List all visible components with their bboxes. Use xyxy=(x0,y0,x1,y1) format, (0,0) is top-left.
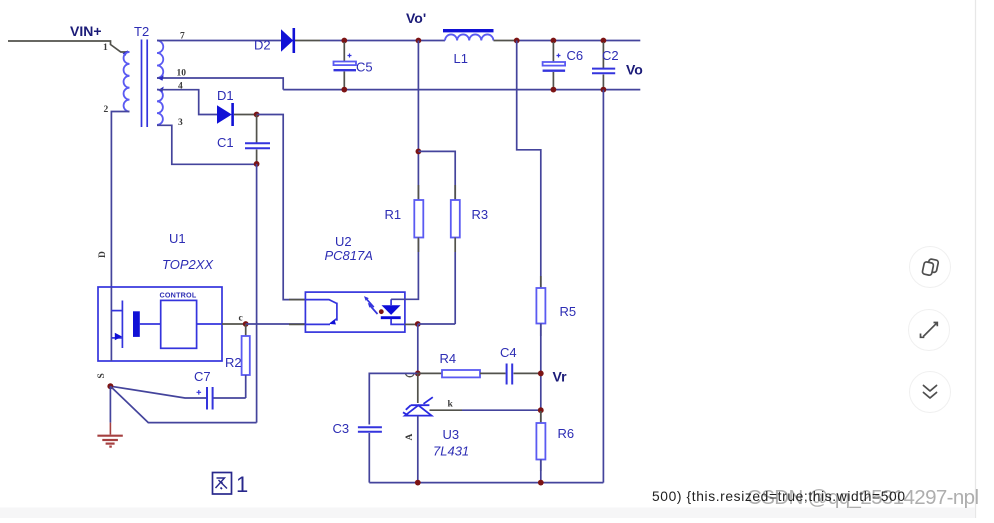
label C5 xyxy=(356,60,373,75)
pin mark under wire xyxy=(406,374,415,377)
node D1 cathode junction xyxy=(254,112,260,118)
label U2 xyxy=(335,234,352,249)
polarity arrow pin 10 xyxy=(159,75,164,81)
label PC817A xyxy=(325,248,373,263)
svg-text:1: 1 xyxy=(103,43,108,53)
node C2 top junction xyxy=(601,38,607,44)
svg-text:k: k xyxy=(448,400,454,410)
op-amp U1 body box xyxy=(98,287,222,361)
pin D label xyxy=(98,251,108,258)
svg-text:Vr: Vr xyxy=(553,369,568,385)
svg-text:R4: R4 xyxy=(440,351,457,366)
svg-text:R2: R2 xyxy=(225,355,242,370)
transistor Q inside U1 xyxy=(111,287,160,361)
wire L1 to rail end xyxy=(494,40,641,42)
svg-text:R3: R3 xyxy=(472,207,489,222)
wire C7 to source node diagonal xyxy=(110,386,206,398)
wire node c to U2 emitter xyxy=(246,323,306,325)
capacitor C7 xyxy=(197,387,213,410)
node L1 right junction xyxy=(514,38,520,44)
pin 1 xyxy=(103,43,108,53)
node c junction xyxy=(243,321,249,327)
svg-text:C5: C5 xyxy=(356,60,373,75)
wire sense divider from Vo' xyxy=(417,41,419,201)
pin S label xyxy=(97,373,107,378)
polarity arrow pin 4 xyxy=(159,87,164,93)
wire pin 3 to C1 bottom xyxy=(157,125,257,164)
wire VIN+ input to transformer pin 1 xyxy=(8,41,130,56)
resistor R2 xyxy=(242,324,250,398)
wire pin 4 to D1 anode xyxy=(157,90,217,115)
LED inside U2 xyxy=(381,299,405,324)
label VIN+ xyxy=(70,23,102,39)
capacitor C3 xyxy=(358,427,382,482)
ground xyxy=(97,436,122,447)
label R6 xyxy=(558,426,575,441)
diode D1 xyxy=(217,103,233,126)
node LED cathode junction xyxy=(415,321,421,327)
node C1 bottom junction xyxy=(254,161,260,167)
label R4 xyxy=(440,351,457,366)
wire R6 bottom xyxy=(540,460,542,483)
label C4 xyxy=(500,345,517,360)
UI divider line xyxy=(975,0,977,518)
label R2 xyxy=(225,355,242,370)
wire split to R3 xyxy=(418,151,455,200)
node LED anode dot xyxy=(379,309,384,314)
node Vo' junction xyxy=(416,38,422,44)
label C6 xyxy=(567,48,584,63)
node anode bottom junction xyxy=(415,480,421,486)
svg-text:C4: C4 xyxy=(500,345,517,360)
wire LED node down to R4 node xyxy=(417,324,419,373)
wire R1 bottom to LED anode xyxy=(391,239,418,299)
wire bias return vertical xyxy=(256,164,258,423)
label D1 xyxy=(217,88,234,103)
svg-text:1: 1 xyxy=(236,472,248,497)
wire R5 branch from L1 node xyxy=(517,41,541,289)
UI collapse button xyxy=(910,372,951,413)
UI expand button xyxy=(909,310,950,351)
svg-text:D1: D1 xyxy=(217,88,234,103)
caption resize text xyxy=(652,489,905,504)
wire C3 branch xyxy=(369,373,418,424)
wire S to ground xyxy=(109,386,111,434)
label TOP2XX xyxy=(162,257,214,272)
svg-text:PC817A: PC817A xyxy=(325,248,373,263)
wire U2 pin stubs xyxy=(289,300,305,325)
svg-text:D: D xyxy=(98,251,108,258)
transformer T2 secondary winding 7-10 xyxy=(157,41,163,79)
svg-text:D2: D2 xyxy=(254,38,271,53)
svg-text:c: c xyxy=(239,314,243,324)
CONTROL block inside U1 xyxy=(160,291,197,349)
svg-text:T2: T2 xyxy=(134,24,149,39)
svg-text:Vo: Vo xyxy=(626,62,643,78)
watermark text xyxy=(747,486,979,509)
figure caption 图1 xyxy=(213,472,249,497)
svg-text:C3: C3 xyxy=(333,421,350,436)
svg-text:3: 3 xyxy=(178,118,183,128)
label C1 xyxy=(217,135,234,150)
wire bottom return rail xyxy=(369,482,603,484)
svg-text:500) {this.resized=true;this.w: 500) {this.resized=true;this.width=500 xyxy=(652,489,905,504)
label U3 xyxy=(443,427,460,442)
wire LED cathode to node xyxy=(405,323,418,325)
node ref junction xyxy=(538,407,544,413)
svg-text:U2: U2 xyxy=(335,234,352,249)
svg-text:2: 2 xyxy=(104,105,109,115)
resistor R5 xyxy=(536,276,545,336)
node R4 left junction xyxy=(415,371,421,377)
svg-text:R1: R1 xyxy=(385,207,402,222)
resistor R6 xyxy=(536,411,545,471)
wire Vo' rail C5 to L1 xyxy=(344,40,445,42)
shunt regulator U3 TL431 xyxy=(403,373,433,482)
wire R2 bottom to C7 xyxy=(214,397,246,399)
svg-text:VIN+: VIN+ xyxy=(70,23,102,39)
label L1 xyxy=(454,51,468,66)
svg-text:Vo': Vo' xyxy=(406,10,426,26)
wire U3 ref to cathode node xyxy=(430,409,541,411)
label C2 xyxy=(602,48,619,63)
svg-text:R5: R5 xyxy=(560,304,577,319)
node R1 R3 split junction xyxy=(416,149,422,155)
node C5 top junction xyxy=(341,38,347,44)
label U1 xyxy=(169,231,186,246)
resistor R4 xyxy=(418,370,506,377)
node C5 bottom junction xyxy=(341,87,347,93)
UI copy button xyxy=(910,247,951,288)
svg-text:10: 10 xyxy=(177,69,187,79)
wire R5 bottom to R6 top xyxy=(540,324,542,424)
wire D1 node to collector branch xyxy=(257,115,306,300)
wire U1 control pin to node c xyxy=(197,323,246,325)
label Vo xyxy=(626,62,643,78)
svg-text:R6: R6 xyxy=(558,426,575,441)
resistor R3 xyxy=(451,185,460,324)
svg-text:S: S xyxy=(97,373,107,378)
wire D2 cathode to C5 node xyxy=(295,40,344,42)
svg-text:A: A xyxy=(405,434,415,441)
svg-text:C7: C7 xyxy=(194,369,211,384)
node R6 bottom junction xyxy=(538,480,544,486)
node C2 bottom junction xyxy=(601,87,607,93)
label Vr xyxy=(553,369,568,385)
svg-text:TOP2XX: TOP2XX xyxy=(162,257,214,272)
inductor L1 xyxy=(443,31,494,41)
label R1 xyxy=(385,207,402,222)
wire pin 7 to D2 anode xyxy=(157,40,281,42)
label D2 xyxy=(254,38,271,53)
svg-text:L1: L1 xyxy=(454,51,468,66)
diode D2 xyxy=(281,28,294,53)
label C3 xyxy=(333,421,350,436)
UI bottom strip xyxy=(0,508,975,519)
svg-text:C2: C2 xyxy=(602,48,619,63)
wire pin 2 to U1 drain xyxy=(111,112,129,288)
node C6 bottom junction xyxy=(551,87,557,93)
pin A label xyxy=(405,434,415,441)
opto-coupler U2 body box xyxy=(305,292,405,332)
pin k label xyxy=(448,400,454,410)
svg-text:7L431: 7L431 xyxy=(433,444,469,459)
label R3 xyxy=(472,207,489,222)
pin 7 xyxy=(180,32,185,42)
svg-text:U1: U1 xyxy=(169,231,186,246)
wire R3 bottom to LED node xyxy=(418,323,455,325)
phototransistor inside U2 xyxy=(305,300,337,325)
transformer T2 primary winding xyxy=(124,52,130,112)
svg-text:U3: U3 xyxy=(443,427,460,442)
wire D1 cathode to node xyxy=(234,114,257,116)
node C6 top junction xyxy=(551,38,557,44)
transformer T2 core xyxy=(142,40,148,128)
wire return rail Vo- xyxy=(283,89,640,91)
pin 10 xyxy=(177,69,187,79)
capacitor C1 xyxy=(245,115,270,164)
wire right return riser xyxy=(602,90,604,483)
svg-text:CONTROL: CONTROL xyxy=(160,291,197,300)
pin 2 xyxy=(104,105,109,115)
photon arrows inside U2 xyxy=(364,296,378,314)
pin 3 xyxy=(178,118,183,128)
label Vo' xyxy=(406,10,426,26)
wire pin 10 to return rail xyxy=(157,78,283,90)
pin c label xyxy=(239,314,243,324)
node Vr junction xyxy=(538,371,544,377)
transformer T2 secondary winding 4-3 xyxy=(157,90,163,125)
transformer T2 label xyxy=(134,24,149,39)
capacitor C5 xyxy=(334,42,357,90)
label C7 xyxy=(194,369,211,384)
node S junction xyxy=(107,383,113,389)
label 7L431 xyxy=(433,444,469,459)
pin 4 xyxy=(178,82,183,92)
svg-text:C1: C1 xyxy=(217,135,234,150)
wire S to bias return xyxy=(110,386,256,422)
resistor R1 xyxy=(414,185,423,252)
capacitor C4 xyxy=(507,364,541,385)
label R5 xyxy=(560,304,577,319)
capacitor C2 xyxy=(592,42,615,90)
svg-text:C6: C6 xyxy=(567,48,584,63)
capacitor C6 xyxy=(543,42,566,90)
